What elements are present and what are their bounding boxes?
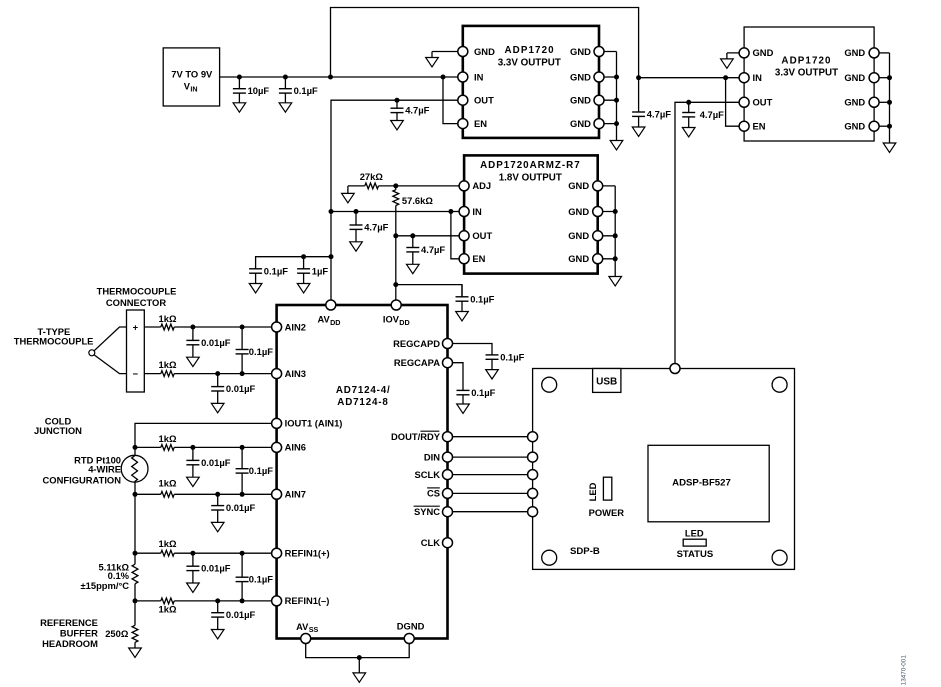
svg-text:−: −: [133, 368, 139, 379]
svg-text:REFIN1(–): REFIN1(–): [285, 595, 330, 606]
svg-text:DGND: DGND: [397, 620, 425, 631]
svg-text:IN: IN: [474, 71, 484, 82]
svg-text:1kΩ: 1kΩ: [159, 313, 177, 324]
svg-text:OUT: OUT: [472, 230, 492, 241]
svg-text:SDP-B: SDP-B: [570, 546, 600, 557]
svg-text:CLK: CLK: [421, 537, 440, 548]
svg-text:250Ω: 250Ω: [105, 628, 129, 639]
svg-text:REGCAPD: REGCAPD: [393, 338, 440, 349]
svg-text:ADJ: ADJ: [472, 180, 491, 191]
svg-text:HEADROOM: HEADROOM: [42, 638, 98, 649]
svg-text:57.6kΩ: 57.6kΩ: [402, 195, 433, 206]
svg-text:GND: GND: [753, 47, 774, 58]
svg-text:0.01µF: 0.01µF: [201, 563, 231, 574]
svg-text:27kΩ: 27kΩ: [360, 171, 384, 182]
svg-text:GND: GND: [844, 72, 865, 83]
svg-text:4.7µF: 4.7µF: [364, 222, 388, 233]
svg-text:GND: GND: [844, 47, 865, 58]
svg-text:REFERENCE: REFERENCE: [40, 617, 98, 628]
svg-text:IOUT1 (AIN1): IOUT1 (AIN1): [285, 418, 343, 429]
svg-text:EN: EN: [474, 118, 487, 129]
svg-text:USB: USB: [596, 377, 617, 388]
svg-text:STATUS: STATUS: [677, 549, 714, 560]
svg-text:ADP1720: ADP1720: [781, 55, 831, 66]
svg-text:DD: DD: [399, 318, 409, 327]
svg-text:0.1µF: 0.1µF: [249, 346, 273, 357]
svg-text:IN: IN: [472, 206, 482, 217]
svg-text:AV: AV: [317, 314, 330, 324]
svg-text:ADP1720: ADP1720: [505, 45, 555, 56]
svg-text:+: +: [133, 321, 139, 332]
svg-text:±15ppm/°C: ±15ppm/°C: [81, 580, 130, 591]
svg-text:GND: GND: [844, 97, 865, 108]
svg-text:1kΩ: 1kΩ: [159, 359, 177, 370]
svg-text:GND: GND: [474, 46, 495, 57]
svg-text:REGCAPA: REGCAPA: [394, 357, 440, 368]
svg-text:REFIN1(+): REFIN1(+): [285, 548, 330, 559]
svg-text:3.3V OUTPUT: 3.3V OUTPUT: [775, 67, 838, 78]
svg-text:LED: LED: [685, 528, 704, 539]
svg-text:POWER: POWER: [589, 507, 625, 518]
svg-text:0.01µF: 0.01µF: [201, 337, 231, 348]
svg-text:IOV: IOV: [383, 314, 400, 324]
svg-text:4.7µF: 4.7µF: [647, 109, 671, 120]
svg-text:0.1µF: 0.1µF: [249, 465, 273, 476]
svg-text:GND: GND: [570, 95, 591, 106]
svg-text:3.3V OUTPUT: 3.3V OUTPUT: [498, 57, 561, 68]
svg-text:JUNCTION: JUNCTION: [34, 425, 82, 436]
svg-text:1kΩ: 1kΩ: [159, 478, 177, 489]
svg-text:THERMOCOUPLE: THERMOCOUPLE: [97, 285, 177, 296]
svg-text:GND: GND: [568, 206, 589, 217]
svg-text:AIN7: AIN7: [285, 489, 306, 500]
svg-text:IN: IN: [190, 85, 197, 94]
svg-text:EN: EN: [753, 121, 766, 132]
svg-text:0.01µF: 0.01µF: [226, 502, 256, 513]
svg-text:GND: GND: [844, 121, 865, 132]
svg-text:GND: GND: [570, 118, 591, 129]
svg-text:ADP1720ARMZ-R7: ADP1720ARMZ-R7: [480, 160, 581, 171]
svg-text:SCLK: SCLK: [414, 469, 440, 480]
svg-text:GND: GND: [568, 180, 589, 191]
svg-text:13470-001: 13470-001: [901, 655, 908, 686]
svg-text:CS: CS: [427, 488, 440, 499]
svg-text:GND: GND: [568, 230, 589, 241]
svg-text:AIN2: AIN2: [285, 321, 306, 332]
svg-text:IN: IN: [753, 72, 763, 83]
svg-text:ADSP-BF527: ADSP-BF527: [672, 477, 731, 488]
svg-text:OUT: OUT: [753, 97, 773, 108]
svg-text:AIN3: AIN3: [285, 368, 306, 379]
svg-text:7V TO 9V: 7V TO 9V: [171, 68, 213, 79]
svg-text:DOUT/RDY: DOUT/RDY: [391, 431, 441, 442]
svg-text:1kΩ: 1kΩ: [159, 538, 177, 549]
svg-text:0.1µF: 0.1µF: [500, 351, 524, 362]
svg-text:GND: GND: [570, 46, 591, 57]
svg-text:4.7µF: 4.7µF: [700, 109, 724, 120]
svg-text:AD7124-8: AD7124-8: [337, 397, 388, 408]
svg-text:1kΩ: 1kΩ: [159, 604, 177, 615]
svg-text:4-WIRE: 4-WIRE: [88, 464, 121, 475]
svg-text:0.01µF: 0.01µF: [226, 609, 256, 620]
svg-text:4.7µF: 4.7µF: [421, 244, 445, 255]
svg-text:AIN6: AIN6: [285, 442, 306, 453]
svg-text:10µF: 10µF: [248, 85, 270, 96]
svg-text:OUT: OUT: [474, 95, 494, 106]
svg-text:0.1µF: 0.1µF: [470, 293, 494, 304]
svg-text:4.7µF: 4.7µF: [405, 105, 429, 116]
svg-text:THERMOCOUPLE: THERMOCOUPLE: [14, 335, 94, 346]
svg-text:SS: SS: [309, 625, 319, 634]
svg-text:EN: EN: [472, 253, 485, 264]
svg-text:0.01µF: 0.01µF: [201, 457, 231, 468]
svg-text:CONNECTOR: CONNECTOR: [106, 297, 166, 308]
svg-text:1kΩ: 1kΩ: [159, 433, 177, 444]
svg-text:GND: GND: [570, 71, 591, 82]
svg-text:0.1µF: 0.1µF: [294, 85, 318, 96]
svg-text:0.1µF: 0.1µF: [249, 574, 273, 585]
svg-text:0.01µF: 0.01µF: [226, 383, 256, 394]
svg-text:1.8V OUTPUT: 1.8V OUTPUT: [499, 172, 562, 183]
svg-text:CONFIGURATION: CONFIGURATION: [43, 475, 122, 486]
svg-text:DIN: DIN: [424, 451, 440, 462]
svg-text:1µF: 1µF: [312, 265, 329, 276]
svg-text:0.1µF: 0.1µF: [264, 265, 288, 276]
svg-text:AD7124-4/: AD7124-4/: [336, 385, 391, 396]
svg-text:LED: LED: [587, 482, 598, 501]
svg-text:AV: AV: [296, 622, 309, 632]
svg-text:DD: DD: [330, 318, 340, 327]
svg-text:GND: GND: [568, 253, 589, 264]
svg-text:0.1µF: 0.1µF: [471, 387, 495, 398]
svg-text:SYNC: SYNC: [414, 506, 440, 517]
